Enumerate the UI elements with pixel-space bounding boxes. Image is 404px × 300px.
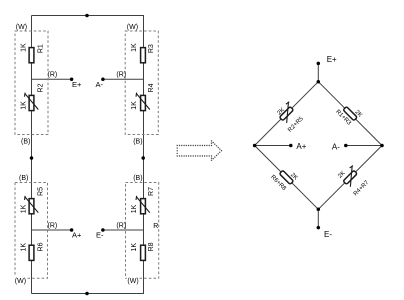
node diamond left <box>253 144 257 148</box>
node left rail mid junction <box>30 156 34 160</box>
node A- <box>101 78 105 82</box>
wire E- stub <box>317 209 319 227</box>
svg-text:R7: R7 <box>148 187 155 196</box>
resistor R4+R7 <box>340 165 362 187</box>
svg-text:E+: E+ <box>72 80 82 89</box>
wire A- stub <box>346 145 382 147</box>
svg-text:(R): (R) <box>48 71 58 78</box>
node E- <box>101 228 105 232</box>
svg-text:1K: 1K <box>20 243 27 252</box>
svg-text:(W): (W) <box>127 278 138 285</box>
gauge box bottom-left dashed <box>15 183 48 279</box>
svg-text:(B): (B) <box>133 138 142 145</box>
svg-text:R2: R2 <box>38 83 45 92</box>
wire diamond edge bottom-left <box>255 146 319 210</box>
svg-text:(B): (B) <box>19 175 28 182</box>
svg-text:1K: 1K <box>131 43 138 52</box>
label (W) bottom-right <box>127 276 139 284</box>
resistor R6+R8 <box>279 170 293 184</box>
label 2K R4+R7 <box>336 163 371 198</box>
gauge box top-left dashed <box>15 31 48 135</box>
resistor R8 <box>141 245 146 260</box>
node diamond right <box>380 144 384 148</box>
svg-text:1K: 1K <box>20 43 27 52</box>
label 2K R1+R3 <box>334 100 363 129</box>
svg-text:1K: 1K <box>20 101 27 110</box>
svg-text:A-: A- <box>332 143 340 152</box>
gauge box top-right dashed <box>125 31 158 135</box>
svg-text:(W): (W) <box>16 24 27 31</box>
svg-text:A-: A- <box>96 80 104 89</box>
node A+ diamond <box>289 144 293 148</box>
svg-text:(W): (W) <box>127 24 138 31</box>
svg-text:R4: R4 <box>148 83 155 92</box>
resistor R3 <box>141 48 146 63</box>
svg-text:A+: A+ <box>296 142 306 151</box>
svg-text:1K: 1K <box>131 101 138 110</box>
svg-text:(B): (B) <box>133 175 142 182</box>
svg-text:(B): (B) <box>21 138 30 145</box>
resistor R1 <box>29 48 34 63</box>
wire diamond edge top-right <box>318 82 382 146</box>
wire top rail <box>32 15 145 17</box>
resistor R1+R3 <box>343 107 357 121</box>
node E- diamond <box>317 226 321 230</box>
node A+ <box>70 228 74 232</box>
resistor R2 <box>25 93 39 111</box>
svg-text:(W): (W) <box>15 278 26 285</box>
svg-text:(R): (R) <box>48 222 58 229</box>
wire E- tap <box>103 229 144 231</box>
resistor R2+R5 <box>276 101 298 123</box>
resistor R6 <box>29 245 34 260</box>
node diamond top <box>317 80 321 84</box>
svg-text:1K: 1K <box>131 243 138 252</box>
svg-text:R6: R6 <box>38 242 45 251</box>
arrow dotted block <box>177 140 223 161</box>
svg-text:(R): (R) <box>116 71 126 78</box>
svg-text:R5: R5 <box>38 187 45 196</box>
node E+ diamond <box>317 62 321 66</box>
svg-text:R3: R3 <box>148 44 155 53</box>
svg-text:(R): (R) <box>116 222 126 229</box>
wire A- tap <box>103 78 144 80</box>
node E+ <box>70 78 74 82</box>
wire right rail <box>143 16 145 294</box>
wire bottom rail <box>32 293 145 295</box>
svg-text:1K: 1K <box>131 204 138 213</box>
label 2K R6+R8 <box>269 163 298 192</box>
wire E+ tap <box>32 78 72 80</box>
node A- diamond <box>344 144 348 148</box>
svg-text:E-: E- <box>324 230 332 239</box>
svg-text:1K: 1K <box>20 204 27 213</box>
svg-text:A+: A+ <box>72 231 82 240</box>
svg-text:R8: R8 <box>148 242 155 251</box>
wire A+ stub <box>255 145 291 147</box>
wire diamond edge bottom-right <box>318 146 382 210</box>
node bottom rail junction <box>85 292 89 296</box>
wire diamond edge top-left <box>255 82 319 146</box>
node diamond bottom <box>317 208 321 212</box>
wire left rail <box>31 16 33 294</box>
svg-text:R: R <box>153 223 158 230</box>
svg-text:E+: E+ <box>327 55 337 64</box>
label (W) bottom-left <box>14 276 27 284</box>
node top rail junction <box>85 14 89 18</box>
resistor R7 <box>136 196 150 214</box>
resistor R5 <box>25 196 39 214</box>
node right rail mid junction <box>141 156 145 160</box>
svg-text:E-: E- <box>96 231 104 240</box>
gauge box bottom-right dashed <box>126 183 159 279</box>
wire E+ stub <box>317 63 319 81</box>
svg-text:R1: R1 <box>38 44 45 53</box>
label 2K R2+R5 <box>273 102 305 134</box>
resistor R4 <box>136 93 150 111</box>
wire A+ tap <box>32 229 72 231</box>
